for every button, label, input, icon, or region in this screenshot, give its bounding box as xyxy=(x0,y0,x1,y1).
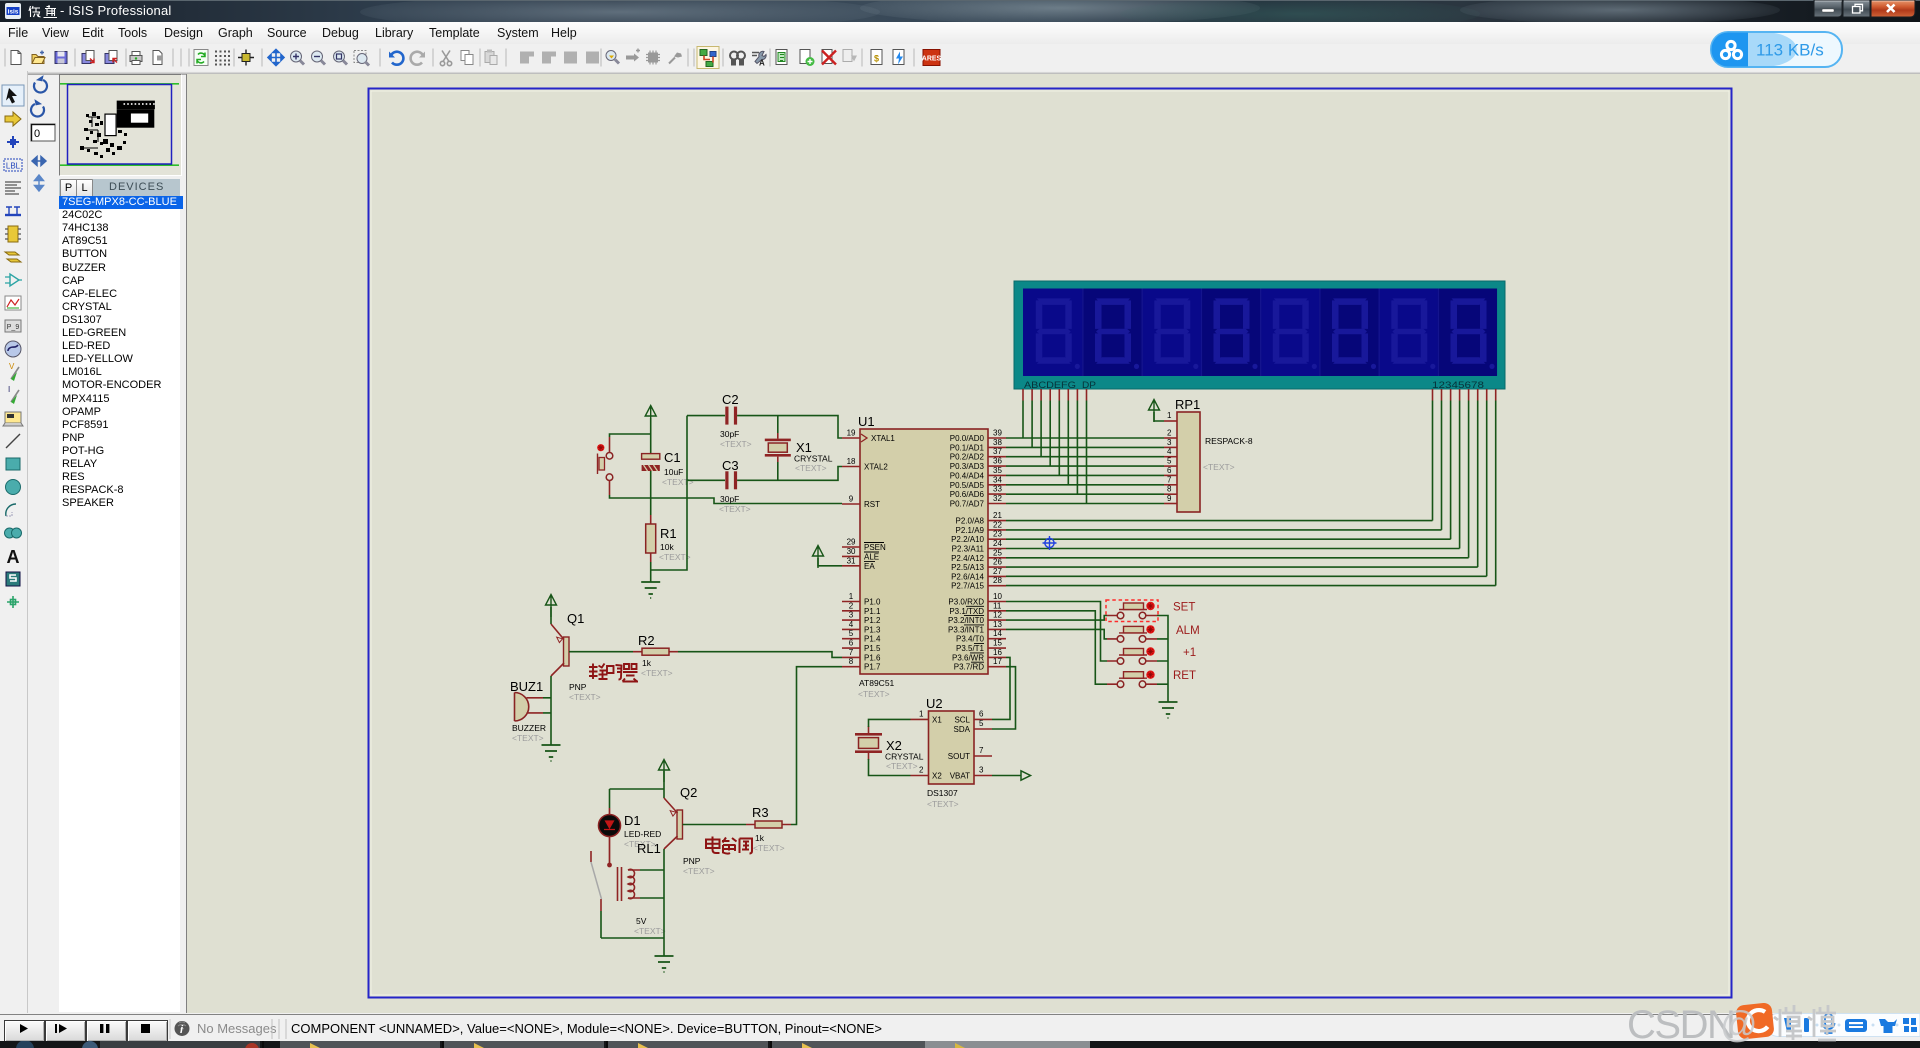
print area xyxy=(153,51,162,65)
wire display digit 5 to P2.4 xyxy=(1468,401,1470,558)
svg-text:24: 24 xyxy=(993,539,1002,548)
svg-text:P3.3/INT1: P3.3/INT1 xyxy=(948,625,985,634)
wire P2.7 net xyxy=(1006,585,1496,587)
BOM xyxy=(871,50,882,65)
svg-text:CRYSTAL: CRYSTAL xyxy=(794,454,833,464)
svg-text:7: 7 xyxy=(979,746,984,755)
display digit pin 8 stub xyxy=(1495,389,1497,401)
wire display E to P0.4 xyxy=(1058,401,1060,476)
svg-text:14: 14 xyxy=(993,629,1002,638)
display digit pin 7 stub xyxy=(1486,389,1488,401)
wire display digit 7 to P2.6 xyxy=(1486,401,1488,577)
export xyxy=(105,51,117,64)
svg-text:4: 4 xyxy=(1167,447,1172,456)
svg-text:30pF: 30pF xyxy=(720,494,739,504)
svg-text:37: 37 xyxy=(993,447,1002,456)
svg-text:Q2: Q2 xyxy=(680,785,697,800)
svg-text:isis: isis xyxy=(8,9,19,16)
svg-text:P0.3/AD3: P0.3/AD3 xyxy=(950,462,985,471)
svg-text:PSEN: PSEN xyxy=(864,543,886,552)
U1 pin name overlines xyxy=(964,606,984,662)
wire P2.4 net xyxy=(1006,557,1469,559)
wire P0.5 net xyxy=(1006,484,1164,486)
wire display C to P0.2 xyxy=(1040,401,1042,457)
wire power to RP1 pin1 xyxy=(1154,412,1164,421)
svg-text:3: 3 xyxy=(1167,438,1172,447)
svg-text:EA: EA xyxy=(864,562,875,571)
wire power rail to Q2 and D1 xyxy=(610,771,665,808)
junction xyxy=(7,136,19,148)
svg-text:29: 29 xyxy=(847,538,856,547)
svg-text:P0.7/AD7: P0.7/AD7 xyxy=(950,500,985,509)
svg-text:<TEXT>: <TEXT> xyxy=(795,463,827,473)
rotate controls xyxy=(27,71,59,201)
wire display DP to P0.7 xyxy=(1086,401,1088,504)
wire display digit 4 to P2.3 xyxy=(1459,401,1461,549)
marker xyxy=(7,596,19,608)
svg-text:18: 18 xyxy=(847,457,856,466)
U1 right pin names xyxy=(948,434,985,672)
svg-text:@: @ xyxy=(1720,1004,1758,1045)
svg-text:31: 31 xyxy=(847,556,856,565)
RP1 pin 7 stub xyxy=(1164,484,1177,486)
wire C3 to XTAL2 xyxy=(737,467,842,481)
2d symbol xyxy=(6,572,20,586)
2d circle xyxy=(6,480,21,495)
display segment pin F stub xyxy=(1067,389,1069,401)
wire Q2 base to R3 xyxy=(683,824,747,826)
svg-text:3: 3 xyxy=(979,766,984,775)
window buttons xyxy=(1813,0,1917,20)
display segment pin C stub xyxy=(1040,389,1042,401)
svg-text:<TEXT>: <TEXT> xyxy=(886,761,918,771)
display digit pin 4 stub xyxy=(1459,389,1461,401)
gate xyxy=(5,274,22,286)
svg-text:P0.1/AD1: P0.1/AD1 xyxy=(950,443,985,452)
wire U2 VBAT with arrow terminal xyxy=(992,775,1021,777)
svg-text:<TEXT>: <TEXT> xyxy=(719,504,751,514)
IME toolbar xyxy=(1766,1013,1920,1039)
svg-text:25: 25 xyxy=(993,548,1002,557)
svg-text:10k: 10k xyxy=(660,542,674,552)
svg-text:RST: RST xyxy=(864,500,880,509)
113 KB/s badge xyxy=(1710,31,1844,69)
display segment pin B stub xyxy=(1031,389,1033,401)
svg-text:ALM: ALM xyxy=(1176,625,1200,637)
svg-text:<TEXT>: <TEXT> xyxy=(641,668,673,678)
ground for relay circuit xyxy=(655,956,674,972)
svg-text:17: 17 xyxy=(993,657,1002,666)
svg-text:11: 11 xyxy=(993,601,1002,610)
import xyxy=(82,51,94,64)
wire display F to P0.5 xyxy=(1067,401,1069,485)
print xyxy=(130,52,142,65)
menu bar xyxy=(0,22,1920,45)
pan xyxy=(268,50,284,66)
capacitor C3 xyxy=(687,458,751,514)
svg-text:28: 28 xyxy=(993,576,1002,585)
svg-text:P_9: P_9 xyxy=(7,324,20,331)
wire power to Q1 emitter xyxy=(550,607,552,624)
svg-text:<TEXT>: <TEXT> xyxy=(683,866,715,876)
zoom out xyxy=(312,51,326,65)
RP1 pin 4 stub xyxy=(1164,456,1177,458)
wire P0.3 net xyxy=(1006,465,1164,467)
taskbar xyxy=(0,1041,1920,1048)
display segment pin DP stub xyxy=(1086,389,1088,401)
RP1 pin 9 stub xyxy=(1164,503,1177,505)
svg-text:R2: R2 xyxy=(638,633,655,648)
wire P3.3 to button ALM xyxy=(1006,629,1107,639)
svg-text:32: 32 xyxy=(993,494,1002,503)
7-segment display DISP 7SEG-MPX8-CC-BLUE frame xyxy=(1014,281,1505,391)
search xyxy=(730,52,745,66)
make device xyxy=(626,49,640,62)
grid xyxy=(215,51,230,66)
svg-text:P2.0/A8: P2.0/A8 xyxy=(956,517,985,526)
svg-text:P2.6/A14: P2.6/A14 xyxy=(951,572,984,581)
svg-text:30: 30 xyxy=(847,547,856,556)
2d arc xyxy=(6,504,16,516)
relay RL1 xyxy=(618,841,666,936)
wire display digit 3 to P2.2 xyxy=(1450,401,1452,540)
svg-text:P2.2/A10: P2.2/A10 xyxy=(951,535,984,544)
svg-text:13: 13 xyxy=(993,620,1002,629)
packaging xyxy=(646,51,660,65)
svg-text:P0.5/AD5: P0.5/AD5 xyxy=(950,481,985,490)
display digit pin 2 stub xyxy=(1441,389,1443,401)
component mode xyxy=(5,112,21,126)
crystal X1 xyxy=(765,416,833,473)
svg-text:RET: RET xyxy=(1173,670,1196,682)
wire buzzer pins to Q1 collector net xyxy=(543,698,551,713)
svg-text:P3.4/T0: P3.4/T0 xyxy=(956,635,985,644)
button SET xyxy=(1107,602,1195,619)
svg-text:V: V xyxy=(9,362,15,371)
wire node to R1 xyxy=(650,498,652,515)
display segment pin G stub xyxy=(1076,389,1078,401)
svg-text:10uF: 10uF xyxy=(664,467,683,477)
svg-text:2: 2 xyxy=(919,766,924,775)
button RET xyxy=(1107,670,1196,687)
svg-text:<TEXT>: <TEXT> xyxy=(659,552,691,562)
svg-text:5V: 5V xyxy=(636,916,647,926)
capacitor C1 electrolytic xyxy=(642,450,694,487)
svg-text:D1: D1 xyxy=(624,813,641,828)
origin xyxy=(238,50,254,66)
svg-text:<TEXT>: <TEXT> xyxy=(1203,462,1235,472)
svg-text:P2.7/A15: P2.7/A15 xyxy=(951,582,984,591)
svg-text:<TEXT>: <TEXT> xyxy=(720,439,752,449)
svg-text:6: 6 xyxy=(979,710,984,719)
svg-text:R3: R3 xyxy=(752,805,769,820)
wire display G to P0.6 xyxy=(1076,401,1078,495)
svg-text:P3.7/RD: P3.7/RD xyxy=(954,663,984,672)
RP1 pin 5 stub xyxy=(1164,465,1177,467)
button +1 xyxy=(1107,647,1196,664)
svg-text:U1: U1 xyxy=(858,414,875,429)
svg-text:BUZZER: BUZZER xyxy=(512,723,546,733)
cut xyxy=(440,51,451,66)
wire P0.2 net xyxy=(1006,456,1164,458)
svg-text:P1.2: P1.2 xyxy=(864,616,881,625)
svg-text:P1.4: P1.4 xyxy=(864,635,881,644)
display digit pin 6 stub xyxy=(1477,389,1479,401)
block copy/move/rotate/delete (disabled gray) xyxy=(520,52,599,64)
current probe xyxy=(8,385,19,404)
svg-text:6: 6 xyxy=(1167,466,1172,475)
svg-text:P2.3/A11: P2.3/A11 xyxy=(952,545,985,554)
display segment pin A stub xyxy=(1022,389,1024,401)
left tool column xyxy=(0,71,28,1013)
svg-text:DP: DP xyxy=(1082,380,1096,391)
wire U2 SCL to P3.6 xyxy=(992,657,1010,719)
svg-text:P0.0/AD0: P0.0/AD0 xyxy=(950,434,985,443)
svg-text:SOUT: SOUT xyxy=(948,752,970,761)
svg-text:113 KB/s: 113 KB/s xyxy=(1756,41,1824,60)
2d box xyxy=(6,458,20,470)
wire power to C1 xyxy=(650,418,652,454)
svg-text:P1.3: P1.3 xyxy=(864,625,881,634)
IC U2 DS1307 body xyxy=(926,696,974,809)
display segment pin D stub xyxy=(1049,389,1051,401)
wire display digit 6 to P2.5 xyxy=(1477,401,1479,568)
svg-text:1: 1 xyxy=(849,592,854,601)
svg-text:36: 36 xyxy=(993,457,1002,466)
capacitor C2 xyxy=(687,392,752,449)
status bar xyxy=(0,1014,1920,1042)
svg-text:P3.5/T1: P3.5/T1 xyxy=(956,644,985,653)
svg-text:P0.4/AD4: P0.4/AD4 xyxy=(950,471,985,480)
svg-text:RL1: RL1 xyxy=(637,841,661,856)
app icon xyxy=(5,3,21,19)
power symbol for Q1 emitter xyxy=(546,595,557,618)
generator xyxy=(5,341,21,357)
wire P0.1 net xyxy=(1006,446,1164,448)
svg-text:P2.5/A13: P2.5/A13 xyxy=(951,563,984,572)
U2 pin stubs xyxy=(911,710,993,776)
svg-text:CRYSTAL: CRYSTAL xyxy=(885,752,924,762)
ground for buzzer xyxy=(542,745,561,761)
svg-text:VBAT: VBAT xyxy=(950,772,970,781)
label 电磁阀 (solenoid valve) xyxy=(706,837,752,854)
wire display digit 1 to P2.0 xyxy=(1432,401,1434,521)
svg-text:C1: C1 xyxy=(664,450,681,465)
svg-text:$: $ xyxy=(874,54,879,64)
design explorer xyxy=(776,50,787,65)
svg-text:P3.1/TXD: P3.1/TXD xyxy=(949,607,984,616)
svg-text:ARES: ARES xyxy=(922,56,942,63)
wire contact to bottom rail xyxy=(601,911,664,938)
voltage probe xyxy=(9,362,19,381)
ground for buttons xyxy=(1159,702,1178,718)
decompose xyxy=(669,53,682,64)
relay contact xyxy=(591,851,602,911)
resistor R1 xyxy=(646,515,691,562)
svg-text:AT89C51: AT89C51 xyxy=(859,678,895,688)
remove sheet xyxy=(822,50,836,65)
wire Q1 collector down to buzzer net xyxy=(550,676,552,745)
svg-text:<TEXT>: <TEXT> xyxy=(512,733,544,743)
paste (disabled) xyxy=(485,50,497,65)
graph xyxy=(5,296,21,310)
ground for R1 xyxy=(641,582,660,598)
wire X1 bottom to C3 net xyxy=(777,462,779,480)
wire caps ground rail xyxy=(651,416,687,570)
wire display digit 2 to P2.1 xyxy=(1441,401,1443,530)
new sheet xyxy=(800,50,815,67)
wire P2.1 net xyxy=(1006,529,1442,531)
wire P0.4 net xyxy=(1006,474,1164,476)
svg-text:PNP: PNP xyxy=(569,682,587,692)
svg-text:5: 5 xyxy=(1167,457,1172,466)
svg-text:PNP: PNP xyxy=(683,856,701,866)
svg-text:38: 38 xyxy=(993,438,1002,447)
svg-text:P2.4/A12: P2.4/A12 xyxy=(951,554,984,563)
svg-text:+1: +1 xyxy=(1183,647,1196,659)
wire reset button top xyxy=(610,434,651,437)
svg-text:26: 26 xyxy=(993,558,1002,567)
subcircuit xyxy=(5,226,21,242)
RP1 pin 8 stub xyxy=(1164,493,1177,495)
svg-text:CSDN: CSDN xyxy=(1627,1003,1734,1047)
svg-text:12: 12 xyxy=(993,611,1002,620)
2d line xyxy=(6,434,20,448)
reset button xyxy=(597,437,613,495)
svg-text:P3.2/INT0: P3.2/INT0 xyxy=(948,616,985,625)
svg-text:LED-RED: LED-RED xyxy=(624,829,661,839)
svg-text:P1.1: P1.1 xyxy=(864,607,881,616)
selection box around SET button xyxy=(1106,600,1158,622)
svg-text:4: 4 xyxy=(849,620,854,629)
wire P2.5 net xyxy=(1006,566,1478,568)
separators xyxy=(5,49,914,67)
svg-text:XTAL2: XTAL2 xyxy=(864,463,888,472)
new xyxy=(11,51,21,65)
instruments xyxy=(3,412,23,426)
svg-text:16: 16 xyxy=(993,648,1002,657)
resistor R2 xyxy=(633,633,678,678)
svg-text:1k: 1k xyxy=(755,833,765,843)
svg-text:8: 8 xyxy=(849,657,854,666)
svg-text:R1: R1 xyxy=(660,526,677,541)
svg-text:<TEXT>: <TEXT> xyxy=(569,692,601,702)
svg-text:X1: X1 xyxy=(932,716,942,725)
ARES xyxy=(922,50,942,66)
wire bottom rail to ground xyxy=(663,938,665,956)
resistor pack RP1 RESPACK-8 body xyxy=(1175,397,1253,512)
wire Q1 base to R2 xyxy=(569,651,633,653)
svg-text:21: 21 xyxy=(993,511,1002,520)
wire P3.1 to button RET xyxy=(1006,611,1107,684)
U1 right pin stubs and numbers xyxy=(988,429,1006,667)
device list xyxy=(59,196,180,1012)
svg-text:RP1: RP1 xyxy=(1175,397,1200,412)
wire C1 to RST node xyxy=(650,471,652,498)
svg-text:A: A xyxy=(759,59,765,68)
svg-text:23: 23 xyxy=(993,530,1002,539)
overview panel xyxy=(59,74,182,176)
wire R3 to P1.7 xyxy=(791,667,842,825)
svg-text:C3: C3 xyxy=(722,458,739,473)
devices header xyxy=(59,179,180,196)
refresh xyxy=(194,50,208,66)
wire autorouter (active) xyxy=(697,47,719,69)
wire C2 to XTAL1 xyxy=(737,416,842,438)
RP1 pin 3 stub xyxy=(1164,446,1177,448)
wire U2 SDA to P3.7 xyxy=(992,667,1016,729)
wire P0.6 net xyxy=(1006,493,1164,495)
svg-text:33: 33 xyxy=(993,485,1002,494)
redo xyxy=(411,52,425,65)
RP1 pin 2 stub xyxy=(1164,437,1177,439)
svg-text:9: 9 xyxy=(849,495,854,504)
origin marker xyxy=(1043,536,1057,550)
op-amp U1 microcontroller AT89C51 body xyxy=(858,414,988,699)
svg-text:30pF: 30pF xyxy=(720,429,739,439)
label 蜂鸣器 (buzzer) xyxy=(589,664,638,682)
toolbar xyxy=(0,44,1920,71)
svg-text:1: 1 xyxy=(919,710,924,719)
RP1 pin 1 stub xyxy=(1164,420,1177,422)
svg-text:<TEXT>: <TEXT> xyxy=(634,926,666,936)
wire RST node xyxy=(610,495,843,504)
U1 left pin names xyxy=(864,434,895,672)
device pins xyxy=(5,252,21,262)
svg-text:SCL: SCL xyxy=(954,716,970,725)
svg-text:27: 27 xyxy=(993,567,1002,576)
zoom area xyxy=(354,51,369,66)
svg-text:ALE: ALE xyxy=(864,552,879,561)
display segment pin E stub xyxy=(1058,389,1060,401)
wire R2 to P1.6 xyxy=(678,652,842,658)
svg-text:LBL: LBL xyxy=(6,162,21,171)
wire P2.6 net xyxy=(1006,575,1487,577)
svg-text:RESPACK-8: RESPACK-8 xyxy=(1205,436,1253,446)
wire P2.2 net xyxy=(1006,538,1451,540)
svg-text:A: A xyxy=(7,547,20,567)
svg-text:P0.6/AD6: P0.6/AD6 xyxy=(950,490,985,499)
wire P3.2 to button SET xyxy=(1006,616,1107,621)
svg-text:P1.0: P1.0 xyxy=(864,598,881,607)
svg-text:<TEXT>: <TEXT> xyxy=(753,843,785,853)
wire P3.0 to button +1 xyxy=(1006,602,1107,662)
wire P0.7 net xyxy=(1006,503,1164,505)
svg-text:U2: U2 xyxy=(926,696,943,711)
svg-text:No Messages: No Messages xyxy=(197,1021,277,1036)
svg-text:5: 5 xyxy=(849,629,854,638)
wire P2.3 net xyxy=(1006,548,1460,550)
svg-text:2: 2 xyxy=(1167,429,1172,438)
svg-text:SET: SET xyxy=(1173,602,1195,614)
wire P2.0 net xyxy=(1006,520,1433,522)
svg-text:7: 7 xyxy=(1167,475,1172,484)
copy xyxy=(461,51,473,65)
transistor Q2 PNP xyxy=(664,785,715,876)
title text: 仿真 - ISIS Professional xyxy=(28,4,58,19)
svg-text:19: 19 xyxy=(847,429,856,438)
display digit pin 3 stub xyxy=(1450,389,1452,401)
svg-text:<TEXT>: <TEXT> xyxy=(927,799,959,809)
LED D1 xyxy=(599,808,662,867)
svg-text:<TEXT>: <TEXT> xyxy=(662,477,694,487)
svg-text:1k: 1k xyxy=(642,658,652,668)
wire display B to P0.1 xyxy=(1031,401,1033,448)
wire X2 top to U2 X1 xyxy=(868,726,870,733)
property tool xyxy=(752,51,766,67)
U1 left pin stubs and numbers xyxy=(842,429,860,667)
svg-text:<TEXT>: <TEXT> xyxy=(858,689,890,699)
